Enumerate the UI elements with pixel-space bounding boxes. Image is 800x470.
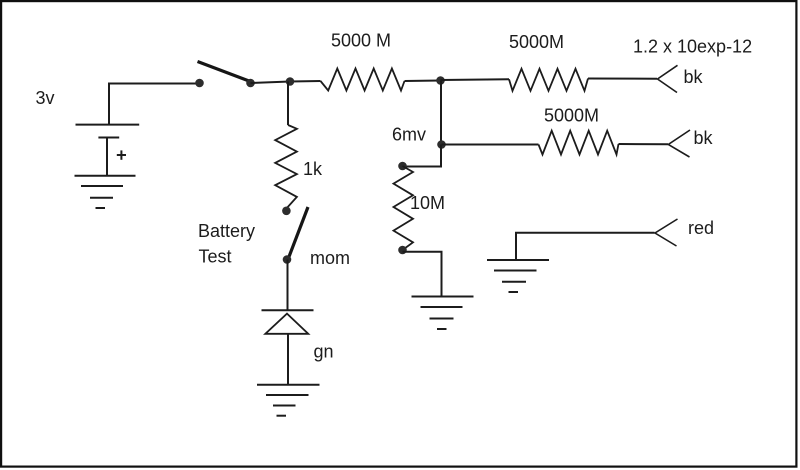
node E dot (10M bottom) [398,246,407,255]
node C dot [437,140,446,149]
wire node A down to 1k [287,82,289,126]
resistor R4 1k [275,125,297,209]
wire diode to ground GND4 [287,334,289,385]
resistor R1 5000 M [321,69,405,91]
node D dot (10M top) [398,162,407,171]
ground GND2 (red return) [487,260,549,292]
wire R1 to node B [405,80,442,83]
wire 10M bottom to ground GND3 [403,252,442,297]
svg-text:bk: bk [684,67,704,87]
svg-text:5000M: 5000M [544,106,599,126]
svg-text:5000 M: 5000 M [331,31,391,51]
svg-text:red: red [688,218,714,238]
ground GND4 (below diode) [257,385,320,416]
wire node B down to node C [440,81,442,145]
diode D1 triangle [265,314,308,334]
switch S2 blade [289,207,309,258]
battery B1 long plate [76,124,140,126]
resistor R3 5000M [539,131,619,155]
wire ground GND2 to connector red [516,233,655,260]
svg-text:1.2 x 10exp-12: 1.2 x 10exp-12 [633,37,752,57]
switch S1 throw dot [246,79,255,88]
wire battery to switch S1 [109,84,197,126]
diode D1 cathode bar [262,309,314,311]
svg-text:gn: gn [314,342,334,362]
wire node B to R2 [441,78,510,81]
wire node C to 10M top [403,145,441,167]
svg-text:Test: Test [199,247,232,267]
connector red [655,219,678,246]
node A dot (1k tap) [286,77,295,86]
svg-text:1k: 1k [303,159,323,179]
wire R3 to connector bk2 [619,143,669,145]
switch S2 throw dot [283,255,292,264]
resistor R2 5000M [509,69,588,91]
connector bk2 [668,130,690,157]
ground GND1 (battery) [75,176,136,208]
ground GND3 (under 10M) [412,297,474,330]
resistor R5 10M [394,166,414,250]
svg-text:Battery: Battery [198,221,255,241]
node B dot [436,76,445,85]
switch S2 pole dot [282,207,291,216]
battery plus sign [117,150,126,159]
wire switch S2 to diode [287,260,289,311]
svg-text:10M: 10M [410,193,445,213]
wire battery negative to ground [106,138,108,176]
svg-text:3v: 3v [36,88,55,108]
switch S1 blade [198,62,254,83]
wire R2 to connector bk1 [588,78,657,80]
battery B1 short plate [98,137,119,139]
svg-text:6mv: 6mv [392,124,426,144]
svg-text:5000M: 5000M [509,32,564,52]
switch S1 pole dot [195,79,204,88]
svg-text:mom: mom [310,248,350,268]
wire switch to node A [251,81,321,83]
wire node C to R3 [442,144,539,146]
connector bk1 [658,65,678,92]
svg-text:bk: bk [694,128,714,148]
